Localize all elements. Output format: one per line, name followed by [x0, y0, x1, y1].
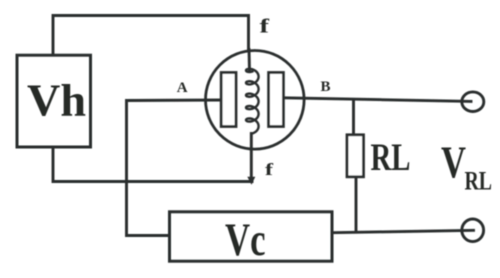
wire anode A branch — [127, 100, 222, 236]
svg-text:f: f — [260, 16, 270, 38]
wire heater bottom lead — [250, 134, 253, 180]
heater coil — [246, 69, 259, 134]
svg-text:RL: RL — [465, 167, 493, 196]
voltage source Vc box — [170, 212, 333, 261]
resistor RL body — [347, 135, 364, 177]
vacuum tube envelope — [206, 51, 305, 150]
wire heater top lead inside tube — [248, 50, 251, 72]
svg-text:Vc: Vc — [225, 214, 266, 266]
svg-text:V: V — [441, 138, 466, 188]
tube plate right (anode B) — [269, 73, 284, 127]
terminal top — [462, 92, 484, 112]
svg-text:RL: RL — [371, 136, 411, 179]
terminal bottom — [462, 219, 484, 242]
wire RL bottom branch — [355, 177, 358, 232]
voltage source Vh box — [17, 55, 91, 147]
wire anode B to terminal — [284, 98, 471, 102]
node f bottom arrowhead — [247, 177, 255, 185]
svg-text:Vh: Vh — [27, 76, 86, 126]
wire heater-top from Vh to tube — [53, 16, 249, 56]
wire bottom from Vc to terminal — [333, 230, 474, 232]
tube plate left (anode A) — [221, 73, 236, 127]
wire heater-bottom from Vh — [53, 148, 252, 182]
svg-text:A: A — [177, 80, 188, 96]
svg-text:B: B — [321, 79, 331, 95]
wire RL top branch — [352, 100, 355, 135]
svg-text:f: f — [265, 160, 273, 179]
